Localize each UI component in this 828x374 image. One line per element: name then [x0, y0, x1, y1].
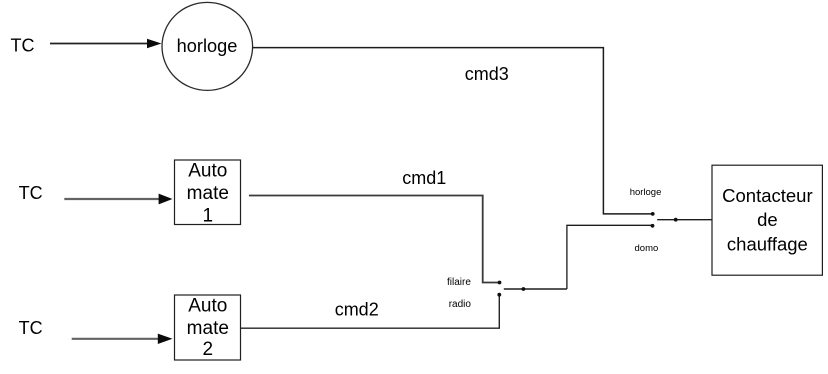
box contacteur de chauffage: [712, 165, 822, 275]
arrow TC to automate 1 (shaft): [64, 198, 159, 200]
wire riser to domo contact: [567, 225, 652, 289]
junction dot on switch 2 pole: [674, 218, 678, 222]
wire cmd1 : automate 1 output to filaire contact: [249, 196, 498, 283]
arrow TC to automate 2 (head): [158, 334, 173, 344]
svg-text:cmd3: cmd3: [465, 64, 509, 84]
svg-text:Auto: Auto: [188, 296, 227, 317]
svg-text:Contacteur: Contacteur: [722, 185, 813, 206]
svg-text:horloge: horloge: [630, 187, 662, 198]
switch 2 contact dot domo: [651, 224, 655, 228]
arrow TC to horloge (shaft): [50, 43, 148, 45]
arrow TC to horloge (head): [147, 39, 162, 49]
svg-text:cmd1: cmd1: [402, 168, 446, 188]
junction dot on switch 1 pole: [522, 287, 526, 291]
box automate 2: [175, 295, 241, 360]
wire cmd3 : horloge output to horloge switch contact: [253, 48, 652, 214]
switch 1 contact dot radio: [497, 293, 501, 297]
svg-text:de: de: [757, 209, 778, 230]
switch 1 contact dot filaire: [498, 281, 502, 285]
svg-text:domo: domo: [635, 243, 659, 254]
svg-text:mate: mate: [187, 183, 229, 204]
arrow TC to automate 2 (shaft): [72, 338, 159, 340]
svg-text:mate: mate: [187, 318, 229, 339]
svg-text:horloge: horloge: [177, 36, 238, 56]
wire switch 2 pole output to contacteur: [657, 219, 712, 221]
wire cmd2 : automate 2 output to radio contact: [241, 296, 500, 328]
svg-text:TC: TC: [19, 183, 43, 203]
svg-text:filaire: filaire: [447, 277, 471, 288]
svg-text:TC: TC: [19, 318, 43, 338]
svg-text:Auto: Auto: [188, 160, 227, 181]
wire switch 1 pole output: [504, 288, 567, 290]
svg-text:cmd2: cmd2: [335, 300, 379, 320]
svg-text:2: 2: [203, 339, 214, 360]
switch 2 contact dot horloge: [651, 212, 655, 216]
svg-text:TC: TC: [11, 36, 35, 56]
box automate 1: [175, 160, 241, 225]
svg-text:radio: radio: [449, 299, 472, 310]
svg-text:1: 1: [203, 205, 214, 226]
arrow TC to automate 1 (head): [159, 194, 173, 205]
circle horloge: [162, 2, 253, 90]
svg-text:chauffage: chauffage: [727, 233, 808, 254]
